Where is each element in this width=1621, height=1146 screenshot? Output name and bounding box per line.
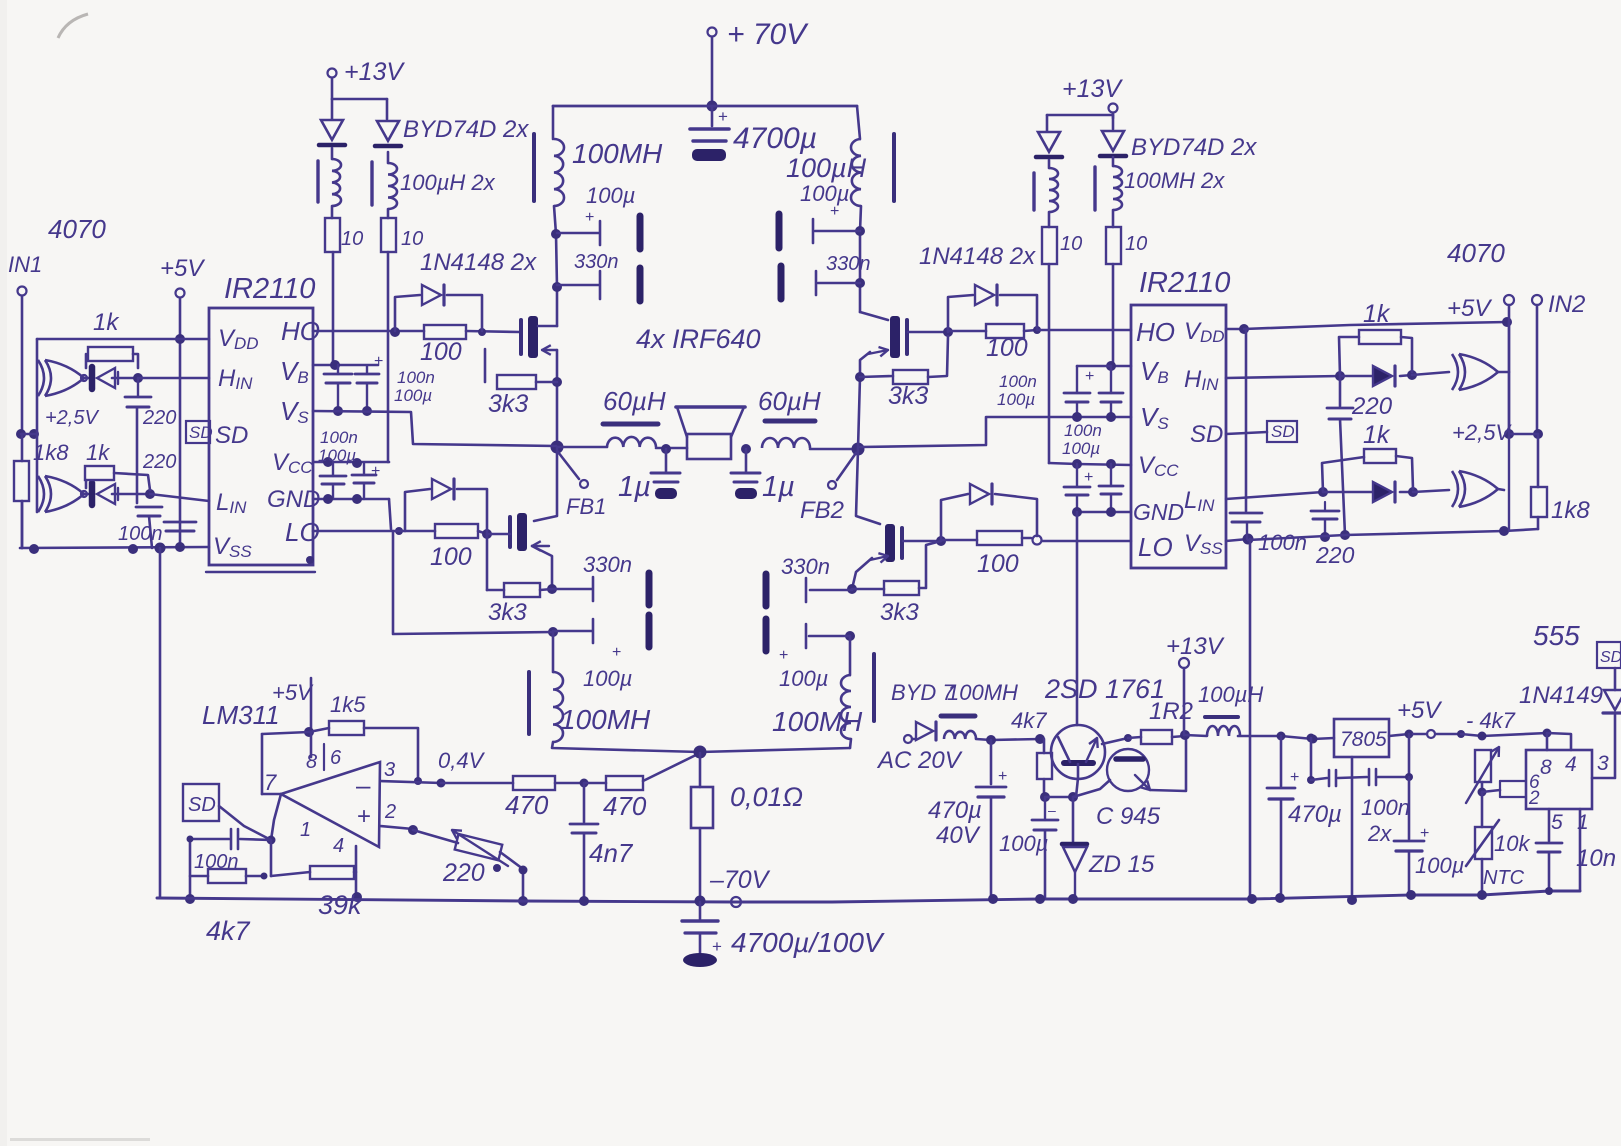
svg-text:330n: 330n	[583, 552, 632, 577]
svg-text:1N4148 2x: 1N4148 2x	[420, 249, 537, 276]
svg-text:100µ: 100µ	[394, 386, 432, 405]
svg-text:4n7: 4n7	[589, 838, 634, 868]
svg-text:+ 70V: + 70V	[727, 18, 809, 51]
svg-text:100MH: 100MH	[772, 706, 863, 737]
svg-text:BYD74D 2x: BYD74D 2x	[403, 116, 529, 143]
svg-text:4070: 4070	[48, 214, 106, 244]
svg-text:40V: 40V	[936, 822, 981, 849]
svg-text:ZD 15: ZD 15	[1088, 851, 1155, 878]
svg-text:470: 470	[505, 790, 549, 820]
svg-text:–: –	[1048, 802, 1056, 818]
svg-text:4: 4	[333, 835, 344, 857]
svg-text:470µ: 470µ	[928, 797, 982, 824]
svg-text:3k3: 3k3	[888, 382, 928, 410]
svg-text:IN2: IN2	[1548, 291, 1585, 318]
svg-text:10: 10	[401, 228, 423, 250]
svg-text:AC 20V: AC 20V	[876, 747, 963, 774]
svg-text:NTC: NTC	[1483, 867, 1525, 889]
svg-text:220: 220	[442, 859, 485, 887]
svg-text:C 945: C 945	[1096, 803, 1161, 830]
svg-text:100MH 2x: 100MH 2x	[1124, 168, 1225, 193]
svg-text:100n: 100n	[999, 372, 1037, 391]
svg-text:100: 100	[420, 338, 462, 366]
svg-text:100n: 100n	[320, 428, 358, 447]
svg-text:60µH: 60µH	[758, 386, 821, 416]
svg-text:3k3: 3k3	[880, 599, 919, 626]
svg-text:330n: 330n	[574, 251, 619, 273]
svg-text:7: 7	[264, 770, 277, 795]
svg-text:100µ: 100µ	[586, 183, 635, 208]
svg-text:4k7: 4k7	[206, 916, 251, 946]
svg-text:+2,5V: +2,5V	[1452, 420, 1512, 445]
svg-text:1µ: 1µ	[762, 471, 795, 503]
svg-text:BYD74D 2x: BYD74D 2x	[1131, 134, 1257, 161]
svg-text:SD: SD	[188, 794, 216, 816]
svg-text:+: +	[1085, 368, 1094, 385]
svg-text:+: +	[712, 937, 722, 956]
svg-text:39k: 39k	[318, 890, 363, 920]
svg-text:10: 10	[1060, 233, 1082, 255]
svg-text:100µ: 100µ	[800, 181, 849, 206]
svg-text:SD: SD	[189, 423, 213, 442]
svg-text:1µ: 1µ	[618, 471, 651, 503]
svg-text:LM311: LM311	[202, 700, 280, 730]
svg-text:4: 4	[1565, 753, 1577, 776]
svg-text:3: 3	[1597, 752, 1609, 775]
svg-text:- 4k7: - 4k7	[1466, 708, 1516, 733]
svg-text:100MH: 100MH	[947, 680, 1018, 705]
svg-text:2: 2	[1528, 788, 1540, 809]
svg-text:1k: 1k	[1363, 421, 1391, 449]
svg-text:1: 1	[300, 819, 311, 841]
svg-text:470: 470	[603, 791, 647, 821]
svg-text:+13V: +13V	[1062, 75, 1123, 103]
svg-text:10n: 10n	[1576, 845, 1616, 872]
svg-text:IR2110: IR2110	[224, 273, 315, 305]
svg-text:220: 220	[1315, 542, 1355, 568]
svg-text:1N4148 2x: 1N4148 2x	[919, 243, 1036, 270]
svg-text:100n: 100n	[1064, 421, 1102, 440]
svg-text:+: +	[612, 644, 621, 661]
svg-text:–: –	[356, 770, 371, 800]
svg-text:330n: 330n	[781, 554, 830, 579]
svg-text:+: +	[779, 647, 788, 664]
svg-text:+13V: +13V	[1166, 633, 1225, 660]
svg-text:+13V: +13V	[344, 58, 405, 86]
svg-text:100µ: 100µ	[583, 666, 632, 691]
svg-text:IR2110: IR2110	[1139, 267, 1230, 299]
svg-text:+5V: +5V	[272, 680, 314, 705]
svg-text:100µ: 100µ	[1062, 439, 1100, 458]
svg-text:1k5: 1k5	[330, 692, 366, 717]
svg-text:220: 220	[1351, 393, 1393, 420]
svg-text:100n: 100n	[1361, 795, 1410, 820]
svg-text:FB1: FB1	[566, 494, 606, 519]
svg-text:555: 555	[1533, 620, 1580, 651]
svg-text:100n: 100n	[397, 368, 435, 387]
svg-text:10: 10	[1125, 233, 1147, 255]
svg-text:0,01Ω: 0,01Ω	[730, 782, 803, 812]
svg-text:100µH 2x: 100µH 2x	[400, 170, 496, 195]
svg-text:+: +	[718, 107, 728, 126]
svg-text:3k3: 3k3	[488, 390, 528, 418]
svg-text:+5V: +5V	[1447, 295, 1492, 322]
svg-text:+: +	[1290, 769, 1299, 786]
svg-text:10: 10	[341, 228, 363, 250]
svg-text:2x: 2x	[1367, 821, 1392, 846]
svg-text:4070: 4070	[1447, 238, 1505, 268]
svg-text:330n: 330n	[826, 253, 871, 275]
svg-text:FB2: FB2	[800, 497, 844, 524]
svg-text:+5V: +5V	[1397, 697, 1442, 724]
svg-text:8: 8	[1540, 756, 1552, 779]
svg-text:+: +	[830, 203, 839, 220]
svg-text:470µ: 470µ	[1288, 801, 1342, 828]
svg-text:SD: SD	[1271, 422, 1295, 441]
svg-text:100: 100	[430, 543, 472, 571]
svg-text:5: 5	[1551, 811, 1563, 834]
svg-text:GND: GND	[1133, 499, 1184, 525]
svg-text:100n: 100n	[1258, 530, 1307, 555]
svg-text:100n: 100n	[118, 523, 163, 545]
svg-text:+: +	[371, 463, 380, 480]
svg-text:+5V: +5V	[160, 255, 205, 282]
svg-text:7805: 7805	[1340, 728, 1387, 751]
svg-text:6: 6	[330, 747, 342, 769]
svg-text:–70V: –70V	[709, 866, 771, 894]
svg-text:3k3: 3k3	[488, 599, 527, 626]
svg-text:1k8: 1k8	[33, 440, 69, 465]
svg-text:100µH: 100µH	[1198, 682, 1263, 707]
svg-text:100: 100	[986, 334, 1028, 362]
svg-text:IN1: IN1	[8, 252, 42, 277]
svg-text:0,4V: 0,4V	[438, 748, 486, 773]
svg-text:1k: 1k	[86, 440, 110, 465]
svg-text:100MH: 100MH	[560, 704, 651, 735]
svg-text:SD: SD	[1600, 649, 1621, 666]
svg-text:+: +	[374, 353, 383, 370]
svg-text:HO: HO	[1136, 317, 1175, 347]
svg-text:60µH: 60µH	[603, 386, 666, 416]
svg-text:100µ: 100µ	[779, 666, 828, 691]
svg-text:BYD 7: BYD 7	[891, 680, 955, 705]
svg-text:+: +	[1084, 469, 1093, 486]
svg-text:220: 220	[142, 451, 176, 473]
svg-text:+: +	[357, 803, 371, 830]
svg-text:2: 2	[384, 801, 396, 823]
svg-text:1R2: 1R2	[1149, 698, 1193, 725]
svg-text:1k: 1k	[93, 309, 120, 336]
svg-text:1N4149: 1N4149	[1519, 682, 1603, 709]
svg-text:4700µ/100V: 4700µ/100V	[731, 927, 885, 958]
svg-text:8: 8	[306, 751, 317, 773]
svg-text:100µ: 100µ	[1415, 853, 1464, 878]
svg-text:10k: 10k	[1494, 831, 1530, 856]
svg-text:+: +	[998, 768, 1007, 785]
svg-text:1k: 1k	[1363, 300, 1391, 328]
svg-text:LO: LO	[1138, 532, 1173, 562]
svg-text:100MH: 100MH	[572, 138, 663, 169]
svg-text:100µ: 100µ	[318, 446, 356, 465]
svg-text:4k7: 4k7	[1011, 708, 1047, 733]
svg-text:+2,5V: +2,5V	[45, 407, 99, 429]
svg-text:100: 100	[977, 550, 1019, 578]
svg-text:SD: SD	[215, 422, 248, 449]
svg-text:1k8: 1k8	[1551, 497, 1590, 524]
svg-text:100µ: 100µ	[997, 390, 1035, 409]
svg-text:100µ: 100µ	[999, 831, 1048, 856]
svg-text:+: +	[585, 209, 594, 226]
svg-text:+: +	[1420, 825, 1429, 842]
svg-text:2SD 1761: 2SD 1761	[1044, 674, 1165, 704]
svg-text:4x IRF640: 4x IRF640	[636, 324, 761, 354]
svg-text:3: 3	[384, 759, 395, 781]
svg-text:100µH: 100µH	[786, 153, 867, 183]
svg-text:4700µ: 4700µ	[733, 122, 817, 155]
svg-text:SD: SD	[1190, 421, 1223, 448]
svg-text:220: 220	[142, 407, 176, 429]
